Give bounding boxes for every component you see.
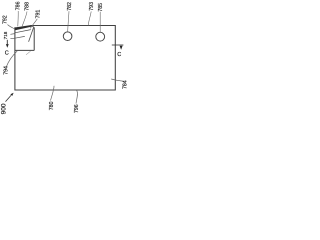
leader 792: [8, 25, 15, 29]
figure arrow 900 line: [6, 95, 12, 101]
inner box right edge: [33, 28, 35, 51]
svg-text:792: 792: [3, 15, 9, 24]
svg-text:C: C: [5, 51, 9, 57]
svg-text:794: 794: [3, 66, 9, 75]
leader 793: [88, 11, 91, 25]
leader 782 to left hole: [68, 11, 69, 32]
leader 785 to right hole: [99, 12, 101, 33]
svg-text:780: 780: [49, 101, 55, 110]
leader 796 crossing bottom edge: [76, 90, 78, 103]
svg-text:784: 784: [122, 80, 128, 89]
svg-text:718: 718: [3, 31, 8, 39]
figure arrow 900 head: [10, 93, 13, 96]
leader 794 curve: [6, 51, 17, 67]
leader 791 to inner box corner: [30, 19, 37, 29]
leader 786: [17, 11, 19, 26]
hole circle right: [96, 32, 105, 41]
inner shallow line B: [15, 36, 25, 38]
section marker C right: line: [112, 44, 124, 46]
leader 780 crossing bottom edge: [51, 86, 55, 101]
svg-text:785: 785: [98, 3, 104, 12]
hatch tick lower on left edge: [10, 37, 14, 40]
section marker C left: arrowhead: [6, 44, 9, 48]
svg-text:900: 900: [1, 103, 8, 114]
svg-text:782: 782: [67, 2, 73, 11]
leader 784 crossing right edge: [111, 79, 123, 81]
section marker C left: stem: [6, 40, 8, 44]
svg-text:786: 786: [16, 1, 22, 10]
svg-text:788: 788: [25, 2, 31, 11]
wedge tip connector to inner box: [32, 26, 35, 28]
leader 788: [22, 12, 27, 27]
svg-text:796: 796: [74, 104, 80, 113]
hatch tick upper on left edge: [10, 33, 14, 36]
main housing outline (rectangle body): [15, 26, 115, 91]
inner shallow line A under wedge: [15, 30, 31, 33]
steep descender from box top-right corner: [29, 28, 34, 42]
faint tail below box: [26, 51, 31, 55]
hole circle left: [63, 32, 72, 41]
svg-text:793: 793: [89, 2, 95, 11]
svg-text:791: 791: [36, 10, 42, 19]
svg-text:C: C: [117, 52, 121, 58]
section marker C right: arrowhead: [120, 46, 123, 50]
latch wedge (dark leaf spring) top-left: [15, 25, 32, 30]
inner box bottom edge: [15, 49, 34, 51]
